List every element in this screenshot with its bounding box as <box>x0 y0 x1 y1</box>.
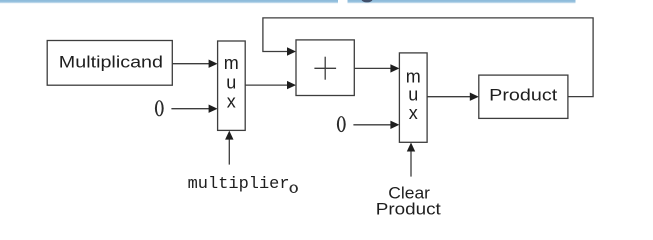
svg-text:x: x <box>409 103 418 123</box>
svg-text:m: m <box>406 66 421 86</box>
wire: 0 to mux2 <box>353 124 391 126</box>
wire: multiplier0 arrow up into mux1 <box>228 139 230 164</box>
wire: Clear Product arrow up into mux2 <box>410 151 412 177</box>
header bar left <box>0 0 338 4</box>
svg-text:multiplier: multiplier <box>188 175 290 194</box>
mux M1 box <box>218 41 246 130</box>
adder box <box>296 40 354 96</box>
wire: 0 to mux1 <box>171 108 209 110</box>
wire: adder to mux2 <box>354 67 391 69</box>
arrowhead into mux2 top input <box>390 64 399 72</box>
svg-text:Product: Product <box>376 200 441 219</box>
mux M2 label m u x <box>406 66 421 123</box>
label 0 (first) <box>155 100 164 116</box>
wire: Multiplicand to mux1 <box>172 63 209 65</box>
arrowhead into mux1 top input <box>209 60 218 68</box>
wire: mux1 to adder <box>245 84 287 86</box>
arrowhead into adder lower input <box>287 81 296 89</box>
header logo fragment <box>361 0 372 2</box>
arrowhead into mux1 lower input <box>209 105 218 113</box>
arrowhead into adder (feedback) <box>287 47 296 55</box>
mux M2 box <box>399 53 427 142</box>
wire: feedback loop Product to adder <box>263 18 593 97</box>
svg-text:Product: Product <box>489 86 557 105</box>
arrowhead into Product <box>470 93 479 101</box>
svg-text:u: u <box>408 85 418 105</box>
svg-text:u: u <box>226 72 236 92</box>
adder plus sign <box>314 67 336 69</box>
arrowhead into mux2 lower input <box>390 121 399 129</box>
box Product <box>479 75 568 118</box>
box Multiplicand <box>47 41 172 86</box>
svg-text:x: x <box>227 92 236 112</box>
mux M1 label m u x <box>224 53 239 111</box>
svg-text:Multiplicand: Multiplicand <box>59 52 163 71</box>
label 0 (second) <box>337 116 346 132</box>
arrowhead into mux1 bottom <box>225 131 233 140</box>
wire: mux2 to Product <box>427 96 470 98</box>
svg-text:m: m <box>224 53 239 73</box>
header bar right <box>348 0 576 4</box>
arrowhead into mux2 bottom <box>407 143 415 152</box>
